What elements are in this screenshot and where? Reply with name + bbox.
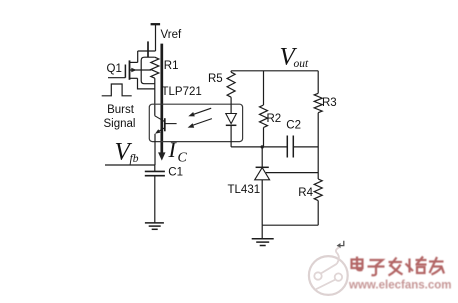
opto phototransistor [155,116,177,134]
return arrow glyph [337,241,344,248]
optocoupler TLP721 package box [149,104,242,141]
wire Q1 source riser and wire to collector node [138,78,155,89]
junction node dot [261,145,264,148]
resistor R1 [151,57,159,78]
wire opto emitter to Vfb node [154,134,156,165]
resistor R3 [314,71,322,147]
svg-text:C2: C2 [286,120,301,132]
burst signal waveform symbol [102,84,132,96]
current arrow I_C [158,44,165,161]
wire Vout rail [231,70,318,72]
svg-text:I: I [168,137,178,162]
svg-text:TLP721: TLP721 [162,86,202,98]
wire bypass loop around R1 [141,57,155,83]
node stub above R1 [147,41,149,57]
resistor R5 [227,71,235,104]
capacitor C1 [145,165,165,223]
capacitor C2 [287,136,293,158]
svg-text:Burst: Burst [107,104,135,116]
svg-text:Q1: Q1 [107,63,122,75]
svg-text:R2: R2 [267,113,282,125]
resistor R2 [260,71,268,147]
opto LED [226,104,237,147]
svg-text:Vref: Vref [161,29,182,41]
svg-text:Signal: Signal [104,118,136,130]
wire Q1 drain riser [137,51,139,62]
wire feedback mid rail [231,146,318,148]
svg-text:R5: R5 [208,73,223,85]
ground right [252,225,274,245]
svg-text:C1: C1 [168,166,183,178]
svg-text:out: out [294,58,310,70]
svg-text:R4: R4 [298,187,313,199]
svg-text:R3: R3 [322,97,337,109]
svg-text:TL431: TL431 [228,184,261,196]
svg-text:C: C [178,151,188,166]
light arrow lower [188,119,212,128]
power supply bar Vref [151,23,161,25]
transistor Q1 (MOSFET) [108,60,151,79]
svg-text:fb: fb [130,153,139,165]
watermark logo [309,247,348,295]
svg-text:R1: R1 [164,60,179,72]
wire Vref vertical [155,24,157,51]
shunt regulator TL431 [255,147,319,225]
wire drain-to-Vref horizontal [138,50,156,52]
resistor R4 [314,147,322,225]
wire R1 bottom to opto collector [154,78,156,116]
wire node Vfb [105,164,155,166]
light arrow upper [188,108,211,116]
wire TL431 anode to R4 bottom [262,224,318,226]
svg-text:www.elecfans.com: www.elecfans.com [348,280,451,292]
watermark text 电子发烧友 (stroke approximation) [352,257,445,276]
ground left [145,223,164,229]
